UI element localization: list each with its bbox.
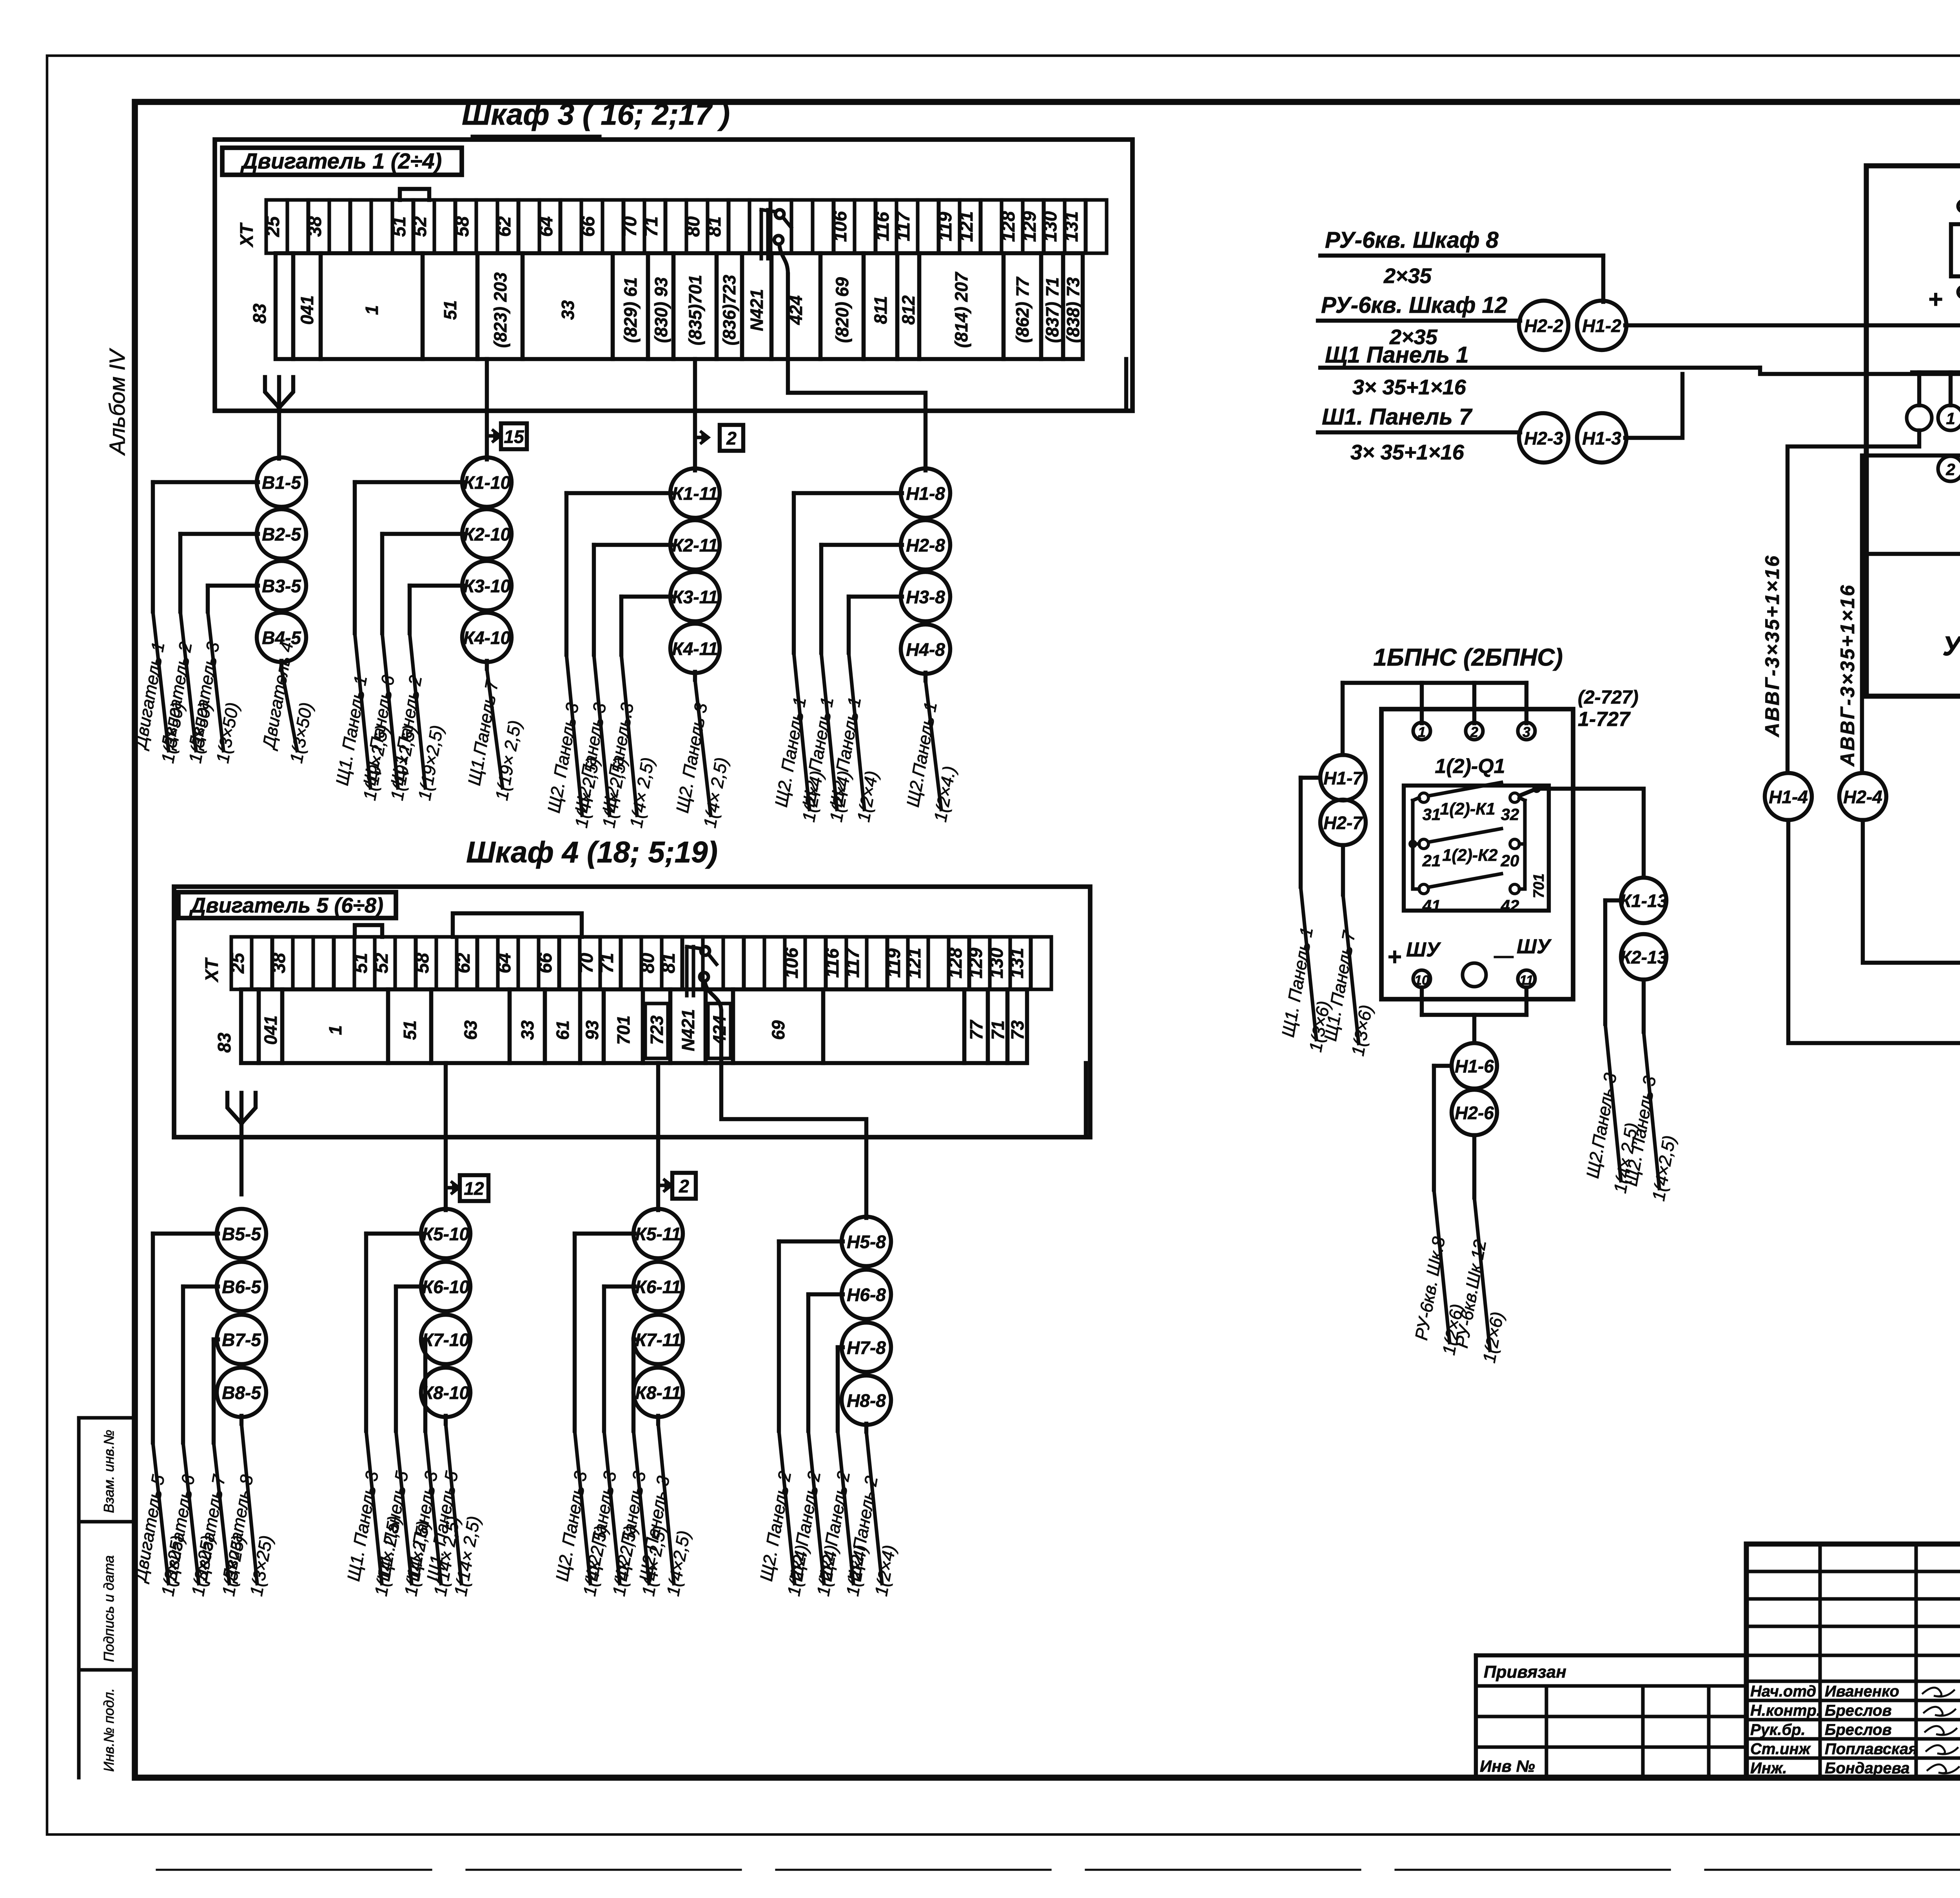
УКП1-1 terminals row 2: [1938, 456, 1960, 481]
svg-text:(820) 69: (820) 69: [832, 277, 852, 343]
svg-text:К8-10: К8-10: [422, 1383, 470, 1403]
node В3-5: [257, 561, 306, 610]
wire: [485, 661, 489, 669]
svg-text:41: 41: [1422, 896, 1441, 915]
wire terminal to К5-11: [656, 1063, 660, 1210]
cable label Щ2. Панель 3 1(4× 2,5): [581, 1431, 641, 1598]
svg-text:121: 121: [956, 211, 976, 242]
svg-text:(830) 93: (830) 93: [651, 277, 671, 343]
node Н1-6: [1452, 1043, 1497, 1089]
svg-text:62: 62: [494, 216, 514, 237]
svg-text:Поплавская: Поплавская: [1825, 1740, 1918, 1758]
svg-text:В7-5: В7-5: [222, 1330, 261, 1350]
svg-text:К4-11: К4-11: [672, 639, 718, 659]
wire: [422, 1339, 425, 1431]
svg-text:1-727: 1-727: [1578, 708, 1631, 731]
sheet reference 12: [446, 1175, 488, 1201]
svg-text:1(2)-Q1: 1(2)-Q1: [1435, 755, 1505, 778]
wire: [924, 673, 927, 680]
svg-text:61: 61: [553, 1020, 573, 1040]
wire Н2-6 to label: [1472, 1135, 1476, 1198]
svg-text:71: 71: [641, 216, 661, 237]
svg-text:N421: N421: [747, 289, 767, 331]
cable label РУ-6кв.Шк.12 1(2×6): [1452, 1198, 1508, 1365]
svg-text:(2-727): (2-727): [1578, 687, 1639, 708]
node Н1-2: [1577, 301, 1626, 350]
svg-text:К3-10: К3-10: [463, 576, 511, 596]
node Н2-4: [1839, 773, 1886, 820]
wire: [633, 1339, 635, 1431]
divider УКП1-1 / УКП2: [1866, 552, 1960, 556]
feeder label Щ1 Панель 1: [1320, 342, 1760, 399]
wire: [821, 545, 902, 653]
node Н2-6: [1452, 1090, 1497, 1135]
cable label Щ2. Панель 1 1(2×4): [826, 653, 882, 824]
wire terminal to К5-10: [444, 1063, 448, 1210]
svg-text:2: 2: [679, 1176, 689, 1196]
svg-text:1: 1: [1946, 409, 1955, 428]
wire contact 32 to К1-13: [1519, 784, 1644, 876]
svg-text:51: 51: [350, 953, 371, 973]
node В2-5: [257, 509, 306, 559]
svg-text:(838) 73: (838) 73: [1063, 277, 1083, 343]
mounting hole: [1463, 963, 1486, 987]
wire Н1-4 to УКП1 terminals: [1788, 820, 1960, 1043]
wire terminal 424 to Н5-8: [721, 1063, 866, 1218]
svg-text:В5-5: В5-5: [222, 1224, 261, 1244]
node Н1-8: [901, 468, 950, 518]
node Н2-2: [1519, 301, 1568, 350]
cable label Щ2. Панель 1 1(2×4): [799, 653, 855, 824]
svg-text:Привязан: Привязан: [1484, 1662, 1566, 1682]
terminal strip XT Шкаф 4 row 1: [201, 937, 1051, 989]
node Н1-7: [1320, 755, 1366, 800]
node Н2-3: [1519, 413, 1568, 463]
wire: [183, 1287, 218, 1443]
net label 1-727: [1578, 687, 1639, 731]
node Н2-8: [901, 520, 950, 570]
terminal 3 БПНС: [1518, 722, 1535, 740]
svg-text:Щ1 Панель 1: Щ1 Панель 1: [1325, 342, 1469, 368]
svg-text:81: 81: [658, 953, 679, 973]
cable label Щ2.Панель 1 1(2×4.): [903, 680, 960, 824]
svg-text:Н3-8: Н3-8: [906, 587, 945, 607]
svg-text:1(2)-К1: 1(2)-К1: [1440, 800, 1495, 818]
svg-text:АВВГ-3×35+1×16: АВВГ-3×35+1×16: [1761, 554, 1783, 738]
svg-text:83: 83: [214, 1032, 234, 1053]
sheet reference 2 (Шкаф 3): [695, 425, 743, 451]
node К1-11: [670, 468, 720, 518]
wire: [153, 1234, 218, 1443]
wire: [621, 597, 671, 655]
svg-text:121: 121: [904, 948, 924, 978]
svg-text:Н2-7: Н2-7: [1323, 813, 1363, 833]
svg-text:1: 1: [362, 305, 382, 315]
svg-text:129: 129: [1019, 211, 1040, 242]
svg-text:+: +: [1388, 944, 1402, 971]
svg-text:(814) 207: (814) 207: [951, 272, 971, 348]
svg-text:58: 58: [412, 953, 432, 973]
ground fork Шкаф 3: [265, 377, 293, 459]
terminal -ШУ: [1494, 935, 1552, 988]
wire Щ1 Панель 1 to УКП1-1 minus fuse: [1760, 368, 1960, 374]
cable label Щ2. Панель 3 1(4× 2,5): [672, 680, 732, 829]
svg-text:041: 041: [297, 295, 317, 325]
cable label Щ2. Панель 1 1(2×4): [771, 653, 827, 824]
cable label Щ2. Панель 3 1(4× 2,5): [571, 655, 631, 829]
jumper over terminals 51-52 Шкаф 3: [400, 189, 429, 200]
svg-text:Н2-8: Н2-8: [906, 535, 945, 555]
bottom scan edge: [157, 1869, 1960, 1871]
jumper over terminals 51-52 Шкаф 4: [355, 925, 382, 937]
wire ШУ terminals to Н1-6: [1422, 987, 1526, 1042]
wire terminal 424 to Н1-8: [788, 359, 926, 470]
svg-text:N421: N421: [678, 1009, 698, 1051]
cable label Щ1. Панель 5 1(14× 2,5): [423, 1424, 484, 1598]
svg-text:1: 1: [1418, 724, 1426, 740]
node Н2-7: [1320, 800, 1366, 845]
wire: [693, 672, 697, 680]
svg-text:(836)723: (836)723: [719, 275, 739, 345]
svg-text:К1-11: К1-11: [672, 483, 718, 504]
svg-text:Ш1. Панель 7: Ш1. Панель 7: [1322, 404, 1473, 430]
svg-text:3: 3: [1523, 724, 1530, 740]
node К4-10: [462, 613, 512, 662]
svg-text:К2-13: К2-13: [1620, 947, 1668, 967]
svg-text:Н1-8: Н1-8: [906, 483, 945, 504]
circuit breaker 1(2)-Q1: [1404, 755, 1549, 911]
node Н7-8: [842, 1323, 891, 1372]
node Н4-8: [901, 624, 950, 674]
svg-text:117: 117: [842, 948, 863, 978]
node К4-11: [670, 624, 720, 673]
cable label Двигатель 1 1(3×50): [130, 611, 188, 765]
node К8-10: [421, 1368, 470, 1417]
unit box 1ВУ (2ВУ): [1866, 113, 1960, 696]
УКП1-1 terminal bus odd: [1912, 372, 1960, 405]
svg-text:116: 116: [822, 948, 842, 978]
svg-text:64: 64: [535, 216, 556, 237]
svg-text:119: 119: [935, 212, 955, 241]
svg-text:Н1-3: Н1-3: [1582, 428, 1621, 448]
svg-text:69: 69: [768, 1020, 788, 1040]
cable label Двигатель 6 1(3×25): [160, 1443, 218, 1598]
svg-text:1: 1: [325, 1025, 345, 1035]
svg-text:Н5-8: Н5-8: [847, 1232, 886, 1252]
svg-text:+: +: [1928, 285, 1943, 313]
cable label Щ2. Панель 2 1(2×4): [756, 1431, 812, 1598]
node К7-10: [421, 1315, 470, 1364]
cable label Щ2. Панель 2 1(2×4): [815, 1431, 871, 1598]
cable label Щ2.Панель 2 1(2×4): [844, 1432, 900, 1598]
wire terminal (835)701 to К1-11: [693, 359, 697, 470]
svg-text:РУ-6кв. Шкаф 12: РУ-6кв. Шкаф 12: [1321, 292, 1507, 318]
title block: [1746, 1544, 1960, 1778]
svg-text:93: 93: [582, 1020, 602, 1040]
svg-text:21: 21: [1422, 851, 1441, 870]
signature names: [1750, 1683, 1959, 1777]
svg-text:XT: XT: [236, 222, 257, 248]
contact 1(2)-К1: [1419, 782, 1519, 824]
svg-text:33: 33: [558, 300, 578, 320]
svg-text:131: 131: [1006, 948, 1027, 978]
node В7-5: [217, 1315, 266, 1364]
wire: [180, 534, 258, 611]
node В5-5: [217, 1209, 266, 1258]
svg-text:80: 80: [637, 953, 658, 973]
svg-text:80: 80: [682, 216, 703, 237]
svg-text:Ст.инж: Ст.инж: [1750, 1740, 1811, 1758]
cable label Щ1. Панель 1 1(3×6): [1278, 887, 1334, 1054]
node В8-5: [217, 1368, 266, 1417]
svg-text:Н1-7: Н1-7: [1323, 768, 1363, 788]
node К6-10: [421, 1262, 470, 1311]
wire: [382, 534, 463, 633]
svg-text:2: 2: [1470, 724, 1478, 740]
svg-text:К7-10: К7-10: [422, 1330, 470, 1350]
wire: [808, 1294, 843, 1431]
svg-text:32: 32: [1501, 805, 1519, 824]
svg-text:Двигатель 5 (6÷8): Двигатель 5 (6÷8): [189, 894, 383, 917]
svg-text:52: 52: [409, 216, 430, 237]
svg-text:Н7-8: Н7-8: [847, 1337, 886, 1358]
cable label Щ1. Панель 6 1(19×2,5): [359, 633, 420, 802]
node К5-11: [633, 1209, 683, 1258]
wire РУ-6кв Шкаф 8 to Н1-2: [1601, 256, 1605, 302]
svg-text:В8-5: В8-5: [222, 1383, 261, 1403]
svg-text:(862) 77: (862) 77: [1013, 276, 1033, 343]
left attachment table: [1476, 1655, 1746, 1778]
cable label Щ1. Панель 3 1(14× 2,5): [343, 1431, 405, 1598]
svg-text:58: 58: [452, 216, 472, 237]
wire terminal (823)203 to К1-10: [485, 359, 489, 459]
svg-text:2: 2: [726, 428, 737, 448]
svg-text:52: 52: [371, 953, 392, 973]
cable label Щ1. Панель 1 1(19×2,5): [332, 633, 392, 802]
margin stamp column: [79, 1418, 135, 1778]
svg-text:128: 128: [998, 211, 1018, 242]
svg-text:Инв №: Инв №: [1480, 1757, 1535, 1775]
wire Н1-6 to label: [1434, 1066, 1452, 1190]
cable label Щ2. Панель 3 1(4× 2,5): [611, 1431, 670, 1598]
wire left side Q1: [1408, 798, 1419, 889]
svg-text:66: 66: [577, 216, 598, 237]
svg-text:К2-10: К2-10: [463, 524, 511, 544]
cable label Двигатель 5 1(3×25): [130, 1443, 188, 1598]
cable label Щ.1 Панель 2 1(19×2,5): [387, 633, 447, 802]
cabinet box Шкаф 3: [215, 98, 1132, 411]
svg-text:Н6-8: Н6-8: [847, 1285, 886, 1305]
svg-text:15: 15: [504, 426, 524, 447]
contact row 41-42: [1419, 874, 1519, 915]
svg-text:К5-10: К5-10: [422, 1224, 470, 1244]
unit box 1БПНС (2БПНС): [1373, 644, 1573, 999]
svg-text:Инж.: Инж.: [1750, 1760, 1787, 1777]
svg-text:Бреслов: Бреслов: [1825, 1702, 1892, 1719]
svg-text:Иваненко: Иваненко: [1825, 1683, 1899, 1700]
cable label Щ2.Панель 3 1(4× 2,5): [1583, 1024, 1642, 1195]
cable label Двигатель 2 1(3×50): [157, 611, 215, 765]
wire: [444, 1416, 448, 1424]
svg-text:(829) 61: (829) 61: [621, 277, 641, 343]
svg-text:Н1-2: Н1-2: [1582, 316, 1621, 336]
svg-text:51: 51: [388, 216, 409, 237]
wire УКП1-1 odd terminals to cable АВВГ 2: [1862, 430, 1960, 771]
svg-text:31: 31: [1423, 805, 1441, 824]
svg-text:К7-11: К7-11: [635, 1330, 681, 1350]
svg-text:041: 041: [261, 1015, 281, 1045]
feeder label РУ-6кв. Шкаф 8: [1320, 227, 1603, 288]
svg-text:117: 117: [893, 211, 913, 241]
svg-text:Н2-6: Н2-6: [1455, 1103, 1494, 1123]
svg-text:К8-11: К8-11: [635, 1383, 681, 1403]
УКП1-1 terminals row 1: [1907, 405, 1960, 430]
jumper over terminals 62-66 Шкаф 4: [453, 913, 582, 937]
node К2-13: [1620, 934, 1668, 980]
svg-text:12: 12: [464, 1178, 484, 1199]
wire bus to terminals 1-3: [1343, 683, 1526, 755]
svg-text:К2-11: К2-11: [672, 535, 718, 555]
svg-text:Шкаф 4 (18; 5;19): Шкаф 4 (18; 5;19): [466, 836, 718, 869]
svg-text:В3-5: В3-5: [262, 576, 301, 596]
node К7-11: [633, 1315, 683, 1364]
cable label Щ1. Панель 3 1(14× 2,5): [403, 1431, 464, 1598]
svg-text:XT: XT: [201, 957, 222, 983]
cable label Двигатель 7 1(3×25): [191, 1443, 249, 1598]
svg-text:К1-13: К1-13: [1620, 891, 1668, 911]
svg-text:51: 51: [440, 300, 460, 320]
svg-text:ШУ: ШУ: [1406, 938, 1441, 961]
svg-text:Н2-4: Н2-4: [1843, 787, 1882, 807]
svg-text:Н1-6: Н1-6: [1455, 1056, 1494, 1076]
node К2-10: [462, 509, 512, 559]
cabinet box Шкаф 4: [174, 836, 1090, 1137]
svg-text:62: 62: [453, 953, 474, 973]
svg-text:Н4-8: Н4-8: [906, 639, 945, 660]
node Н6-8: [842, 1270, 891, 1319]
svg-text:71: 71: [596, 953, 617, 973]
svg-text:701: 701: [1531, 873, 1547, 898]
node Н3-8: [901, 572, 950, 621]
wire Н1-2 to УКП1-1 plus fuse: [1625, 323, 1960, 327]
terminal 2 БПНС: [1466, 722, 1483, 740]
wire Н1-7 to label: [1301, 778, 1320, 887]
wire Н1-3 to УКП1-1: [1625, 374, 1682, 438]
svg-text:В2-5: В2-5: [262, 524, 301, 544]
svg-text:77: 77: [966, 1020, 986, 1040]
wire: [279, 661, 283, 669]
svg-text:38: 38: [304, 216, 325, 237]
wire К2-13 to label: [1642, 980, 1646, 1032]
svg-text:Н.контр.: Н.контр.: [1750, 1702, 1821, 1719]
svg-text:Н8-8: Н8-8: [847, 1390, 886, 1411]
svg-text:Н2-3: Н2-3: [1524, 428, 1563, 448]
svg-text:73: 73: [1007, 1020, 1027, 1040]
wire: [366, 1234, 422, 1431]
svg-text:(835)701: (835)701: [685, 275, 705, 345]
wire: [208, 586, 258, 611]
svg-text:25: 25: [227, 953, 248, 974]
svg-text:71: 71: [988, 1020, 1008, 1040]
svg-text:АВВГ-3×35+1×16: АВВГ-3×35+1×16: [1837, 584, 1858, 767]
svg-text:701: 701: [613, 1015, 633, 1045]
cable label РУ-6кв. Шк.8 1(2×6): [1411, 1190, 1467, 1357]
svg-text:Нач.отд: Нач.отд: [1750, 1683, 1816, 1700]
node К8-11: [633, 1368, 683, 1417]
svg-text:1(2)-К2: 1(2)-К2: [1442, 846, 1497, 865]
feeder label РУ-6кв. Шкаф 12: [1318, 292, 1520, 349]
node К3-11: [670, 572, 720, 621]
node Н1-3: [1577, 413, 1626, 463]
wire right end of strip Шкаф 4: [1084, 1063, 1088, 1137]
wire: [396, 1287, 422, 1431]
node К1-13: [1620, 878, 1668, 923]
svg-text:Подпись и дата: Подпись и дата: [101, 1555, 117, 1662]
svg-text:33: 33: [517, 1020, 537, 1040]
node Н8-8: [842, 1375, 891, 1425]
svg-text:116: 116: [872, 212, 893, 241]
wire: [849, 597, 902, 653]
node В4-5: [257, 613, 306, 662]
svg-text:81: 81: [704, 216, 724, 237]
svg-text:811: 811: [871, 296, 891, 324]
node В6-5: [217, 1262, 266, 1311]
svg-text:—: —: [1494, 945, 1514, 967]
svg-text:УКП 2: УКП 2: [1942, 631, 1960, 661]
svg-text:(823) 203: (823) 203: [490, 272, 510, 348]
wire Н2-4 to УКП1 bus: [1863, 820, 1960, 994]
wire: [355, 482, 463, 633]
svg-text:Бреслов: Бреслов: [1825, 1721, 1892, 1738]
wire: [575, 1234, 635, 1431]
wire: [240, 1416, 243, 1424]
wire УКП1-1 terminal to cable АВВГ 1: [1788, 430, 1919, 771]
node К2-11: [670, 520, 720, 570]
wire: [779, 1241, 843, 1431]
svg-text:106: 106: [781, 947, 802, 978]
wire: [838, 1347, 843, 1431]
disconnect link N421 Шкаф 4: [687, 947, 721, 1063]
svg-text:25: 25: [262, 216, 283, 237]
svg-text:63: 63: [461, 1020, 481, 1040]
wire К1-13 to label: [1605, 900, 1621, 1024]
svg-text:2×35: 2×35: [1383, 264, 1432, 288]
svg-text:812: 812: [898, 295, 918, 325]
wire: [153, 482, 258, 611]
fuse F+ (УКП1-1): [1928, 191, 1960, 325]
wire: [594, 545, 671, 655]
terminal strip XT Шкаф 3 row 2: [249, 253, 1083, 359]
contact 1(2)-К2: [1419, 829, 1519, 870]
terminal strip XT Шкаф 4 row 2: [214, 989, 1027, 1063]
svg-text:42: 42: [1501, 896, 1519, 915]
node В1-5: [257, 457, 306, 507]
svg-text:РУ-6кв. Шкаф 8: РУ-6кв. Шкаф 8: [1325, 227, 1499, 253]
terminal strip XT Шкаф 3 row 1: [236, 200, 1107, 253]
svg-text:128: 128: [945, 947, 965, 978]
svg-text:К1-10: К1-10: [463, 472, 511, 493]
wire: [566, 493, 671, 655]
svg-text:Альбом IV: Альбом IV: [105, 348, 129, 456]
svg-text:Н1-4: Н1-4: [1769, 787, 1808, 807]
svg-text:(837) 71: (837) 71: [1042, 277, 1062, 343]
svg-text:2: 2: [1945, 460, 1955, 479]
wire: [214, 1339, 218, 1443]
svg-text:20: 20: [1501, 851, 1519, 870]
disconnect link N421 Шкаф 3: [761, 210, 791, 359]
node К3-10: [462, 561, 512, 610]
wire: [656, 1416, 660, 1424]
